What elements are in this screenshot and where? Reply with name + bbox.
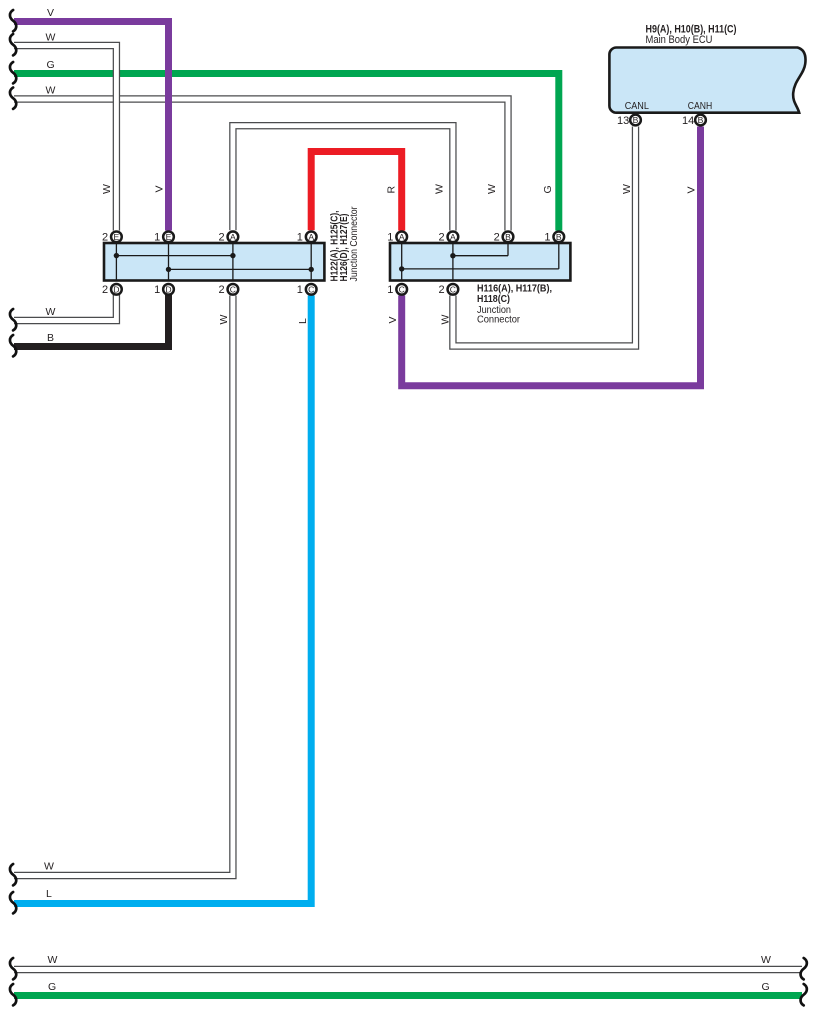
continuation brace (L wire, lower left) (10, 892, 16, 913)
continuation brace (W wire, lower left) (10, 864, 16, 885)
svg-text:D: D (165, 284, 171, 294)
left junction pin D2 (102, 284, 122, 296)
svg-text:E: E (114, 232, 120, 242)
right junction pin C2 (438, 284, 458, 296)
svg-text:V: V (387, 316, 399, 323)
wire B (left brace to left junction pin D1) (14, 294, 169, 347)
svg-text:V: V (153, 185, 165, 192)
continuation brace (G wire, top left) (10, 62, 16, 83)
wire R (left junction pin A1 to right junction pin A1) (311, 152, 402, 231)
continuation brace (B wire, mid left) (10, 335, 16, 356)
wire W (ECU pin 13 CANL to right junction pin C2) (440, 127, 636, 347)
right junction pin B1 (544, 231, 564, 243)
svg-text:CANL: CANL (625, 100, 649, 112)
right junction pin A1 (387, 231, 407, 243)
svg-text:1: 1 (297, 284, 303, 296)
left junction pin C1 (297, 284, 317, 296)
svg-text:A: A (308, 232, 314, 242)
svg-text:14: 14 (682, 115, 694, 127)
svg-text:W: W (218, 315, 230, 325)
wire V (ECU pin 14 CANH to right junction pin C1) (387, 127, 701, 386)
svg-text:D: D (113, 284, 119, 294)
svg-text:C: C (450, 284, 456, 294)
svg-text:G: G (542, 185, 554, 193)
svg-text:2: 2 (102, 284, 108, 296)
svg-text:W: W (46, 85, 56, 97)
svg-text:Connector: Connector (477, 315, 521, 326)
continuation brace (bottom G wire, right end) (801, 984, 807, 1005)
svg-text:1: 1 (297, 231, 303, 243)
ECU pin 13 (B) CANL (617, 115, 641, 127)
svg-text:G: G (47, 59, 55, 71)
continuation brace (W wire, mid left) (10, 309, 16, 330)
continuation brace (W wire, top left) (10, 34, 16, 55)
svg-text:W: W (46, 32, 56, 44)
junction connector H116(A), H117(B), H118(C) (390, 243, 570, 326)
wire W (left brace to right junction connector pin B2) (14, 85, 508, 231)
svg-text:2: 2 (438, 231, 444, 243)
svg-text:A: A (230, 232, 236, 242)
svg-text:B: B (556, 232, 562, 242)
right junction pin C1 (387, 284, 407, 296)
svg-text:C: C (308, 284, 314, 294)
left junction pin E1 (154, 231, 174, 243)
svg-text:C: C (230, 284, 236, 294)
continuation brace (V wire, top left) (10, 10, 16, 31)
svg-text:E: E (166, 232, 172, 242)
wire W (left brace to left junction connector pin E2) (14, 32, 116, 231)
svg-text:W: W (621, 184, 633, 194)
svg-text:W: W (46, 306, 56, 318)
Main Body ECU connector box H9(A), H10(B), H11(C) (609, 24, 805, 113)
wire L (left junction pin C1 down to bottom-left brace) (14, 296, 311, 904)
left junction pin D1 (154, 284, 174, 296)
left junction pin A2 (218, 231, 238, 243)
svg-text:W: W (440, 315, 452, 325)
svg-text:V: V (47, 7, 54, 19)
svg-text:W: W (434, 184, 446, 194)
wire W (left junction pin C2 down to bottom-left brace) (14, 296, 233, 876)
svg-text:1: 1 (154, 284, 160, 296)
svg-text:1: 1 (387, 231, 393, 243)
wire G (left brace to right junction connector pin B1) (14, 59, 559, 231)
left junction pin A1 (297, 231, 317, 243)
svg-text:A: A (450, 232, 456, 242)
svg-text:2: 2 (218, 284, 224, 296)
wire W (bottom full-width run) (14, 954, 802, 970)
left junction pin C2 (218, 284, 238, 296)
svg-text:W: W (101, 184, 113, 194)
svg-text:2: 2 (102, 231, 108, 243)
svg-text:1: 1 (544, 231, 550, 243)
wire W (left junction pin A2 to right junction pin A2) (233, 126, 453, 231)
svg-text:CANH: CANH (688, 100, 712, 112)
svg-text:2: 2 (218, 231, 224, 243)
svg-text:A: A (399, 232, 405, 242)
svg-text:H118(C): H118(C) (477, 294, 510, 305)
svg-text:B: B (633, 115, 639, 125)
wire G (bottom full-width run) (14, 981, 802, 996)
svg-text:1: 1 (154, 231, 160, 243)
svg-text:B: B (47, 332, 54, 344)
svg-text:1: 1 (387, 284, 393, 296)
svg-text:L: L (297, 318, 309, 324)
continuation brace (W wire 2, top left) (10, 88, 16, 109)
wire W (left brace to left junction pin D2) (14, 294, 116, 321)
svg-text:G: G (762, 981, 770, 993)
right junction pin B2 (494, 231, 514, 243)
svg-text:B: B (698, 115, 704, 125)
svg-text:13: 13 (617, 115, 629, 127)
svg-text:Main Body ECU: Main Body ECU (646, 34, 713, 46)
continuation brace (bottom W wire, left end) (10, 958, 16, 979)
svg-text:C: C (399, 284, 405, 294)
svg-text:2: 2 (494, 231, 500, 243)
svg-text:W: W (486, 184, 498, 194)
continuation brace (bottom W wire, right end) (801, 958, 807, 979)
right junction pin A2 (438, 231, 458, 243)
svg-text:V: V (686, 186, 698, 193)
svg-text:G: G (48, 981, 56, 993)
svg-text:B: B (505, 232, 511, 242)
svg-text:R: R (386, 186, 398, 194)
svg-text:W: W (44, 861, 54, 873)
svg-text:W: W (48, 954, 58, 966)
svg-text:2: 2 (438, 284, 444, 296)
ECU pin 14 (B) CANH (682, 115, 706, 127)
continuation brace (bottom G wire, left end) (10, 984, 16, 1005)
svg-text:Junction Connector: Junction Connector (349, 206, 360, 282)
svg-text:H116(A), H117(B),: H116(A), H117(B), (477, 284, 552, 295)
junction connector H122(A), H125(C), H126(D), H127(E) (104, 206, 360, 282)
wire V (left brace to left junction connector pin E1) (14, 7, 169, 231)
svg-text:W: W (761, 954, 771, 966)
left junction pin E2 (102, 231, 122, 243)
svg-text:L: L (46, 888, 52, 900)
